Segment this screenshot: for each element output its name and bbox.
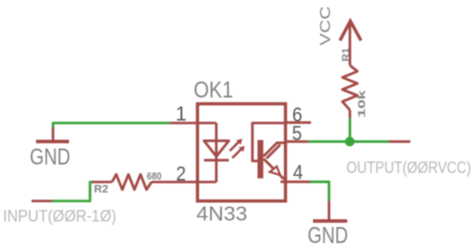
svg-text:GND: GND bbox=[30, 143, 71, 169]
op-amp? no: optocoupler OK1 box bbox=[198, 104, 286, 201]
ground GND1 bbox=[36, 127, 69, 142]
resistor R1 bbox=[342, 23, 357, 118]
wire pin4 to GND2 green bbox=[310, 182, 329, 201]
light arrow 1 bbox=[230, 139, 242, 151]
svg-text:OK1: OK1 bbox=[194, 77, 234, 103]
pin 5 stub bbox=[286, 140, 309, 143]
resistor R2 bbox=[92, 174, 197, 189]
emitter diagonal bbox=[264, 159, 285, 180]
svg-text:R1: R1 bbox=[340, 48, 352, 62]
svg-text:GND: GND bbox=[308, 222, 349, 248]
pin 4 stub bbox=[281, 181, 311, 184]
wire OUTPUT net green bbox=[308, 140, 389, 143]
svg-text:VCC: VCC bbox=[318, 6, 334, 46]
junction bbox=[345, 137, 355, 147]
pin 1 stub bbox=[170, 122, 198, 125]
ground GND2 bbox=[313, 201, 347, 221]
svg-text:1: 1 bbox=[175, 103, 186, 125]
wire output stub red bbox=[389, 140, 410, 143]
light arrow 2 bbox=[232, 146, 244, 158]
LED inside OK1 bbox=[198, 123, 229, 182]
svg-text:INPUT(ØØR-1Ø): INPUT(ØØR-1Ø) bbox=[3, 207, 116, 225]
supply VCC arrow bbox=[340, 21, 361, 41]
wire INPUT net green bbox=[52, 182, 94, 201]
emitter arrowhead bbox=[270, 166, 280, 175]
base bar bbox=[258, 140, 264, 178]
svg-text:4N33: 4N33 bbox=[196, 204, 247, 226]
base line from pin 6 bbox=[252, 123, 285, 161]
collector double diagonal bbox=[264, 143, 286, 157]
svg-text:10k: 10k bbox=[356, 90, 368, 118]
wire GND1 to pin1 green bbox=[53, 123, 170, 127]
transistor Q (phototransistor of OK1) bbox=[252, 123, 285, 179]
wire R1 bottom green bbox=[349, 118, 352, 141]
svg-text:680: 680 bbox=[147, 170, 162, 182]
svg-text:2: 2 bbox=[176, 164, 186, 186]
svg-text:OUTPUT(ØØRVCC): OUTPUT(ØØRVCC) bbox=[346, 159, 471, 177]
svg-text:R2: R2 bbox=[94, 183, 108, 195]
wire input stub red bbox=[32, 200, 53, 203]
pin 6 stub bbox=[286, 121, 312, 124]
